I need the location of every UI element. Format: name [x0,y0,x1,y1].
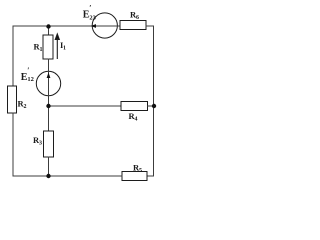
wire bottom rail left [13,175,122,177]
svg-text:′: ′ [27,66,29,75]
node junction middle right [152,104,156,108]
wire bottom rail right stub [147,175,154,177]
wire middle rail right stub [148,105,154,107]
svg-text:3: 3 [39,141,42,147]
wire through source E'23 [92,25,117,27]
wire R1 to source E'12 [48,59,50,71]
wire top rail right to corner [146,25,154,27]
svg-text:4: 4 [135,117,138,123]
resistor R2 [8,86,17,113]
node junction bottom [46,174,50,178]
wire left rail top segment [12,26,14,86]
resistor R6 [120,21,146,30]
svg-text:2: 2 [24,104,27,110]
svg-text:23: 23 [89,15,96,22]
svg-text:5: 5 [139,168,142,174]
wire top rail left [13,25,92,27]
svg-text:12: 12 [27,76,34,83]
arrow of source E'12 (points up) [47,73,51,79]
wire R3 to bottom rail [48,157,50,176]
resistor R4 [121,102,148,111]
wire source E'12 to node [48,96,50,106]
wire left rail bottom segment [12,113,14,176]
wire middle rail left [49,105,122,107]
resistor R5 [122,172,147,181]
resistor R1 [43,35,53,59]
wire top rail between source and R6 [118,25,121,27]
source E'23 [92,13,117,38]
arrow current I1 [55,34,59,59]
wire right rail [153,26,155,176]
svg-text:6: 6 [136,15,139,21]
svg-text:1: 1 [40,47,43,53]
source E'12 [36,71,60,95]
wire through source E'12 [48,71,50,95]
node junction middle left [46,104,50,108]
svg-text:1: 1 [63,46,66,52]
svg-text:′: ′ [89,4,91,13]
arrow of source E'23 (points left) [91,24,97,28]
resistor R3 [44,131,54,157]
wire node to R3 [48,106,50,131]
node junction top (node 1) [46,24,50,28]
wire middle branch top [48,27,50,36]
